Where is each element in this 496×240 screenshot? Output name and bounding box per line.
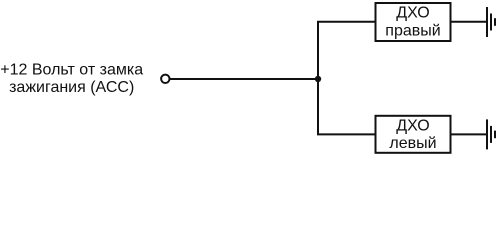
ground (top, rotated right) — [487, 7, 495, 37]
svg-text:левый: левый — [389, 135, 436, 152]
svg-text:зажигания (АСС): зажигания (АСС) — [9, 79, 134, 96]
wire: terminal to junction — [170, 78, 318, 80]
wire: vertical bus — [317, 22, 319, 135]
svg-text:ДХО: ДХО — [396, 117, 429, 134]
block: ДХО правый (right DRL unit) — [376, 3, 451, 41]
wire: top branch to right DRL box — [317, 21, 376, 23]
label: +12 Вольт от замка зажигания (АСС) — [0, 62, 143, 96]
block: ДХО левый (left DRL unit) — [376, 116, 451, 153]
wire: bottom branch to left DRL box — [317, 133, 376, 135]
ground (bottom, rotated right) — [487, 119, 495, 149]
svg-text:ДХО: ДХО — [396, 4, 429, 21]
node: ACC input terminal (open circle) — [161, 75, 169, 83]
svg-text:правый: правый — [385, 22, 440, 39]
svg-text:+12 Вольт от замка: +12 Вольт от замка — [0, 62, 143, 79]
junction dot — [315, 76, 321, 82]
wire: right DRL box to ground — [451, 21, 488, 23]
wire: left DRL box to ground — [451, 133, 488, 135]
